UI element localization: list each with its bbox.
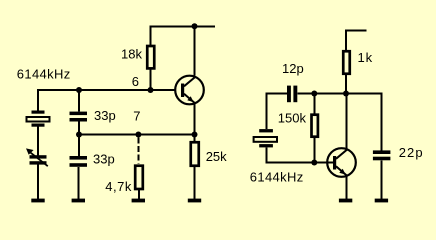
svg-text:12p: 12p xyxy=(282,61,304,76)
svg-text:6144kHz: 6144kHz xyxy=(250,170,304,185)
svg-text:25k: 25k xyxy=(206,149,227,164)
svg-text:33p: 33p xyxy=(94,108,116,123)
svg-text:150k: 150k xyxy=(278,111,307,126)
svg-text:33p: 33p xyxy=(93,152,115,167)
svg-text:6144kHz: 6144kHz xyxy=(17,66,71,81)
svg-text:22p: 22p xyxy=(399,145,424,160)
svg-text:1k: 1k xyxy=(358,50,374,65)
svg-text:6: 6 xyxy=(132,74,139,89)
svg-text:18k: 18k xyxy=(121,47,142,62)
svg-text:7: 7 xyxy=(133,109,140,124)
svg-text:4,7k: 4,7k xyxy=(105,179,132,194)
